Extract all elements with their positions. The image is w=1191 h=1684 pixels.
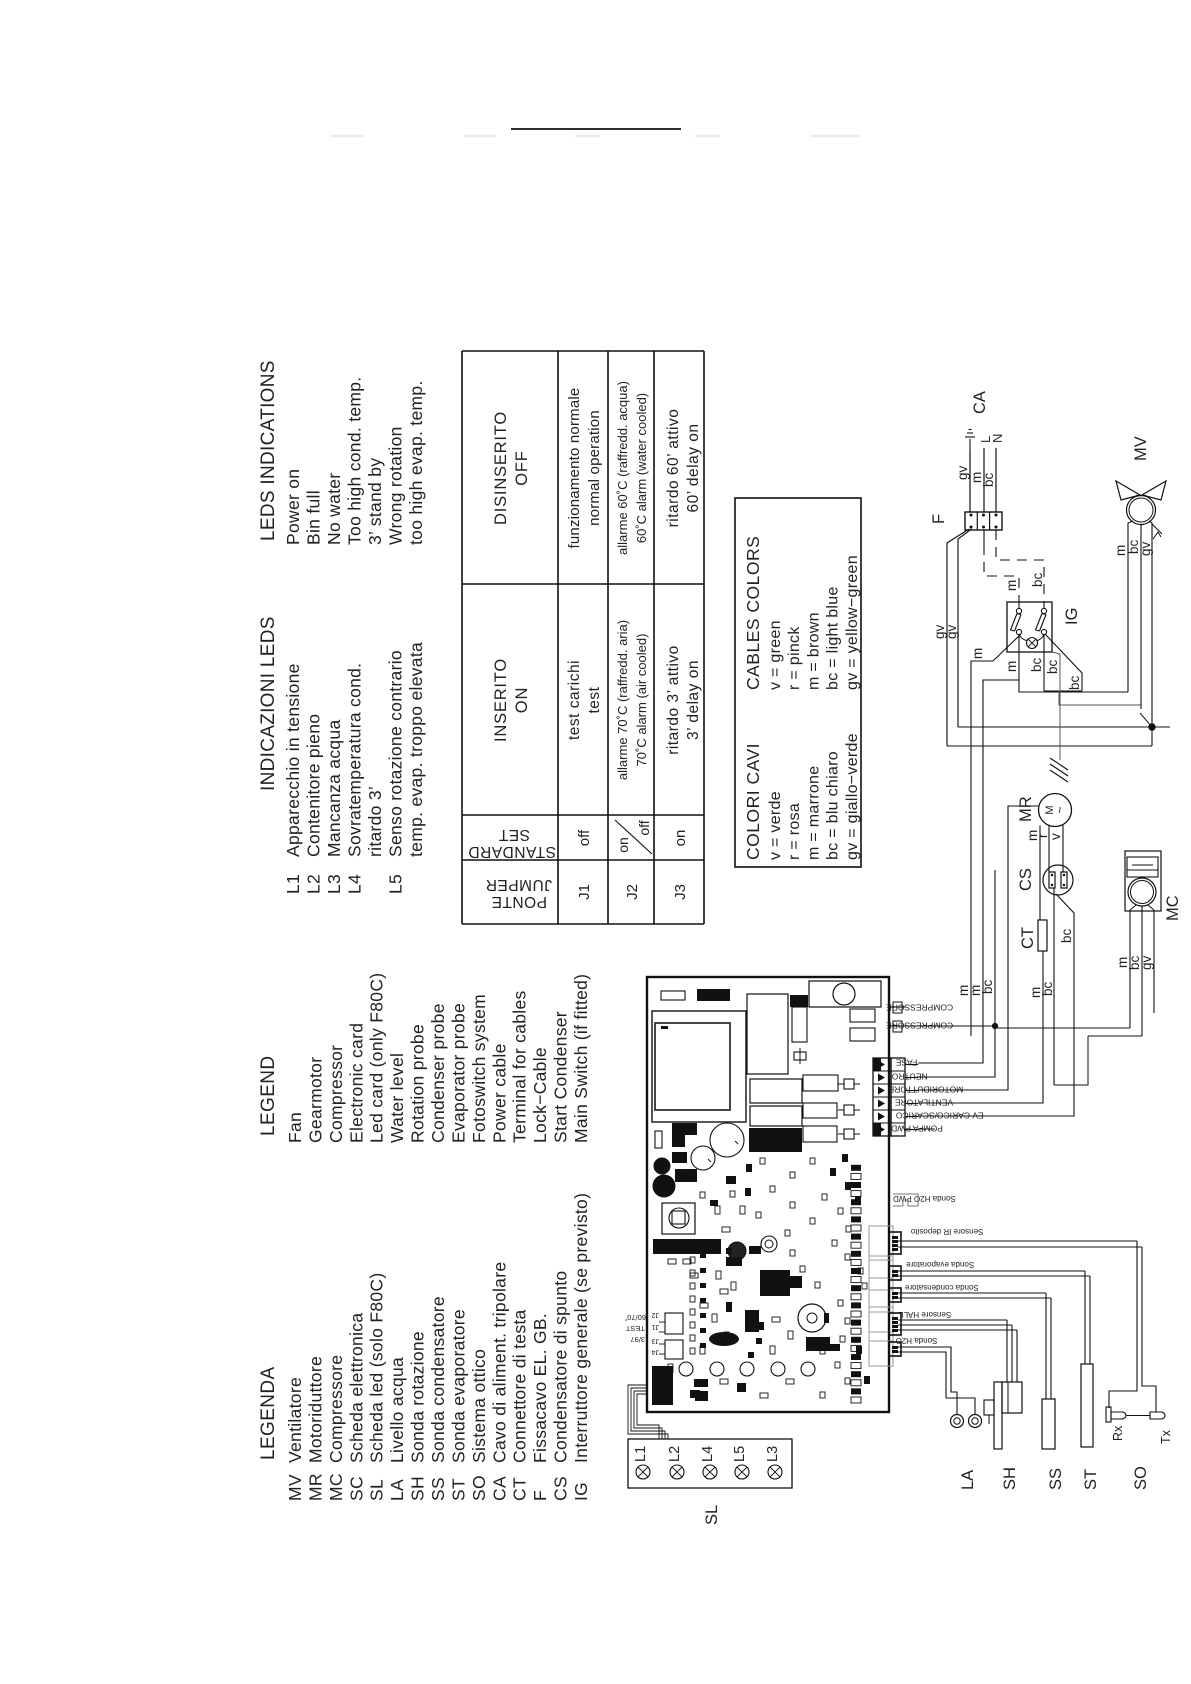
water level LA eyelets bbox=[951, 1415, 964, 1428]
junction dot compressor bc bbox=[992, 1023, 997, 1028]
PCB black square bbox=[790, 995, 808, 1007]
evaporator probe ST wire bbox=[898, 1270, 1085, 1272]
svg-text:SS: SS bbox=[428, 1477, 448, 1501]
PCB crystal oscillator black pill bbox=[709, 1332, 739, 1346]
wire gv pair from F bbox=[947, 529, 969, 746]
svg-text:Rotation probe: Rotation probe bbox=[408, 1024, 428, 1143]
svg-text:3/97: 3/97 bbox=[630, 1335, 645, 1344]
water level LA wires bbox=[898, 1347, 957, 1407]
MC wires m bc gv bbox=[1129, 910, 1131, 1028]
start capacitor CS bbox=[1043, 865, 1073, 895]
svg-text:ST: ST bbox=[1082, 1469, 1100, 1490]
svg-text:SL: SL bbox=[703, 1505, 721, 1525]
svg-text:F: F bbox=[530, 1490, 550, 1501]
svg-text:Power cable: Power cable bbox=[489, 1043, 509, 1143]
svg-text:v: v bbox=[1048, 833, 1063, 840]
svg-text:Condensatore di spunto: Condensatore di spunto bbox=[551, 1271, 571, 1463]
led lamp L1 bbox=[636, 1465, 650, 1479]
PCB jumper tick lines bbox=[659, 1331, 665, 1333]
svg-text:MV: MV bbox=[285, 1474, 305, 1501]
svg-text:Sonda condensatore: Sonda condensatore bbox=[904, 1283, 978, 1292]
svg-text:ritardo 3’ attivo: ritardo 3’ attivo bbox=[665, 645, 682, 755]
svg-text:Cavo di aliment. tripolare: Cavo di aliment. tripolare bbox=[489, 1262, 509, 1463]
svg-text:too high evap. temp.: too high evap. temp. bbox=[406, 380, 426, 545]
svg-text:MV: MV bbox=[1132, 436, 1150, 461]
svg-text:Tx: Tx bbox=[1159, 1429, 1173, 1444]
svg-text:~: ~ bbox=[1053, 806, 1067, 813]
PCB electrolytic capacitor outline big bbox=[710, 1123, 744, 1157]
svg-text:J1: J1 bbox=[576, 884, 593, 900]
svg-text:on: on bbox=[672, 830, 689, 847]
svg-text:J1: J1 bbox=[652, 1323, 660, 1330]
svg-text:Motoriduttore: Motoriduttore bbox=[305, 1356, 325, 1463]
svg-text:Gearmotor: Gearmotor bbox=[305, 1057, 325, 1143]
svg-text:JUMPER: JUMPER bbox=[485, 876, 552, 893]
svg-text:allarme 70˚C (raffredd. aria): allarme 70˚C (raffredd. aria) bbox=[615, 620, 630, 780]
svg-text:CS: CS bbox=[1017, 868, 1035, 891]
svg-text:normal operation: normal operation bbox=[586, 410, 603, 526]
svg-text:bc = blu chiaro: bc = blu chiaro bbox=[825, 751, 842, 860]
PCB rect right of relay 2 bbox=[803, 1103, 837, 1118]
wire bc branch to MV bbox=[1059, 691, 1141, 705]
svg-text:Fissacavo EL. GB.: Fissacavo EL. GB. bbox=[530, 1313, 550, 1463]
connector block mains (FASE..POMPA PWD) bbox=[873, 1058, 918, 1136]
wire m from CA bbox=[983, 448, 985, 512]
svg-text:allarme 60˚C (raffredd. acqua): allarme 60˚C (raffredd. acqua) bbox=[615, 381, 630, 555]
svg-text:L2: L2 bbox=[667, 1446, 683, 1462]
svg-text:Led card (only F80C): Led card (only F80C) bbox=[367, 973, 387, 1143]
sensor connectors black bbox=[889, 1232, 901, 1356]
svg-text:m = marrone: m = marrone bbox=[805, 766, 822, 860]
PCB relay black block bbox=[749, 1128, 802, 1152]
svg-text:60/70˚: 60/70˚ bbox=[625, 1313, 646, 1322]
jumper table grid bbox=[462, 351, 704, 924]
svg-text:L5: L5 bbox=[732, 1446, 748, 1462]
PCB black rect corner bbox=[652, 1366, 673, 1405]
wire bc from CA bbox=[995, 448, 997, 512]
svg-text:gv = giallo−verde: gv = giallo−verde bbox=[844, 733, 861, 860]
svg-text:3’ delay on: 3’ delay on bbox=[685, 660, 702, 740]
svg-text:OFF: OFF bbox=[513, 450, 531, 485]
svg-text:CA: CA bbox=[971, 391, 989, 414]
svg-text:Mancanza acqua: Mancanza acqua bbox=[324, 720, 344, 857]
svg-text:v = green: v = green bbox=[767, 620, 784, 690]
led lamp L2 bbox=[670, 1465, 684, 1479]
compressor MC box bbox=[1125, 851, 1161, 911]
svg-text:Sonda H2O: Sonda H2O bbox=[896, 1336, 938, 1345]
svg-text:LEDS INDICATIONS: LEDS INDICATIONS bbox=[258, 360, 279, 541]
evaporator probe ST body bbox=[1081, 1364, 1093, 1447]
svg-text:TEST: TEST bbox=[625, 1324, 645, 1333]
PCB toroid ring bbox=[761, 1236, 777, 1252]
wire compressor 2 drop bbox=[905, 1025, 995, 1027]
svg-text:Interruttore generale (se prev: Interruttore generale (se previsto) bbox=[571, 1193, 591, 1463]
optical system SO wires bbox=[898, 1240, 1137, 1242]
svg-text:FASE: FASE bbox=[895, 1058, 917, 1068]
svg-text:LA: LA bbox=[387, 1479, 407, 1501]
svg-text:J4: J4 bbox=[652, 1348, 660, 1355]
svg-text:test: test bbox=[586, 686, 603, 713]
PCB black ic extra 2 bbox=[726, 1257, 742, 1266]
svg-text:J3: J3 bbox=[652, 1337, 660, 1344]
svg-text:gv: gv bbox=[944, 624, 959, 639]
terminal block F bbox=[965, 512, 1002, 530]
wire compressor stub 2 bbox=[889, 1025, 905, 1027]
condenser probe SS body bbox=[1042, 1399, 1055, 1449]
svg-text:Contenitore pieno: Contenitore pieno bbox=[304, 714, 324, 857]
PCB transformer bbox=[652, 1011, 746, 1122]
fan MV motor circle bbox=[1127, 496, 1156, 525]
svg-text:Rx: Rx bbox=[1111, 1425, 1125, 1441]
wire bundle card to SL bbox=[637, 1394, 659, 1439]
faint ghost text marks bbox=[330, 135, 365, 138]
svg-text:Main Switch (if fitted): Main Switch (if fitted) bbox=[571, 974, 591, 1143]
svg-text:Compressore: Compressore bbox=[326, 1355, 346, 1463]
svg-text:CT: CT bbox=[510, 1477, 530, 1501]
wire bc line from CS diag bbox=[918, 894, 1074, 1116]
svg-text:L3: L3 bbox=[765, 1446, 781, 1462]
PCB white rect small bbox=[792, 1007, 807, 1042]
svg-text:Condenser probe: Condenser probe bbox=[428, 1003, 448, 1143]
svg-text:LEGEND: LEGEND bbox=[258, 1055, 279, 1136]
svg-text:Compressor: Compressor bbox=[326, 1045, 346, 1143]
svg-text:Sistema ottico: Sistema ottico bbox=[469, 1349, 489, 1463]
IG pole 1 bbox=[1016, 608, 1021, 613]
wire MC m up to NEUTRO trunk bbox=[995, 1027, 1130, 1029]
svg-text:off: off bbox=[576, 829, 593, 846]
PCB ic black middle bbox=[760, 1270, 790, 1296]
svg-text:off: off bbox=[636, 820, 652, 835]
svg-text:Sovratemperatura cond.: Sovratemperatura cond. bbox=[345, 663, 365, 857]
svg-text:v = verde: v = verde bbox=[767, 791, 784, 860]
svg-text:60˚C alarm (water cooled): 60˚C alarm (water cooled) bbox=[634, 393, 649, 543]
PCB electrolytic capacitor outline small bbox=[691, 1146, 715, 1170]
svg-text:Sensore HALL: Sensore HALL bbox=[899, 1310, 952, 1319]
condenser probe SS wire bbox=[898, 1292, 1046, 1294]
svg-text:funzionamento normale: funzionamento normale bbox=[566, 388, 583, 549]
svg-text:LEGENDA: LEGENDA bbox=[258, 1366, 279, 1460]
PCB rect under power entry bbox=[850, 1009, 875, 1022]
svg-text:ON: ON bbox=[513, 687, 531, 713]
svg-text:Ventilatore: Ventilatore bbox=[285, 1377, 305, 1463]
title underline (right edge vertical line) bbox=[511, 128, 681, 130]
svg-text:bc: bc bbox=[1030, 572, 1045, 587]
svg-text:SL: SL bbox=[367, 1479, 387, 1501]
PCB black L-shape component bbox=[672, 1123, 685, 1147]
svg-text:CABLES COLORS: CABLES COLORS bbox=[743, 536, 763, 690]
svg-text:m = brown: m = brown bbox=[805, 612, 822, 690]
svg-text:SET: SET bbox=[498, 826, 530, 843]
wire gv from CA bbox=[969, 450, 971, 512]
svg-text:Scheda led (solo F80C): Scheda led (solo F80C) bbox=[367, 1273, 387, 1463]
svg-text:PONTE: PONTE bbox=[491, 893, 547, 910]
svg-text:IG: IG bbox=[571, 1482, 591, 1501]
wire bc IG diagonal out bbox=[1046, 635, 1083, 692]
PCB black bar component bbox=[697, 989, 730, 1001]
svg-text:Sonda evaporatore: Sonda evaporatore bbox=[448, 1309, 468, 1463]
wire compressor stub 1 bbox=[889, 1006, 905, 1008]
svg-text:Sonda rotazione: Sonda rotazione bbox=[408, 1331, 428, 1463]
PCB relay rect bbox=[747, 994, 788, 1074]
wire bc trunk NEUTRO bbox=[918, 870, 995, 1077]
svg-text:Too high cond. temp.: Too high cond. temp. bbox=[345, 377, 365, 545]
svg-text:m: m bbox=[1004, 661, 1019, 672]
PCB black smd scatter bbox=[690, 1154, 870, 1398]
svg-text:J2: J2 bbox=[624, 884, 641, 900]
SO transmitter Tx bbox=[1150, 1412, 1165, 1419]
svg-text:L5: L5 bbox=[386, 874, 406, 894]
PCB ic black 2 bbox=[745, 1310, 759, 1332]
svg-text:L1: L1 bbox=[283, 874, 303, 894]
svg-text:INDICAZIONI LEDS: INDICAZIONI LEDS bbox=[258, 616, 279, 791]
main switch IG box bbox=[1007, 602, 1052, 652]
svg-text:Terminal for cables: Terminal for cables bbox=[510, 990, 530, 1143]
PCB jumper header J3 bbox=[665, 1340, 683, 1359]
svg-text:test carichi: test carichi bbox=[566, 660, 583, 740]
svg-text:bc: bc bbox=[1040, 981, 1055, 996]
svg-text:IG: IG bbox=[1063, 608, 1081, 625]
svg-text:temp. evap. troppo elevata: temp. evap. troppo elevata bbox=[406, 642, 426, 857]
svg-text:bc: bc bbox=[980, 979, 995, 994]
svg-text:bc: bc bbox=[981, 472, 996, 487]
led lamp L4 bbox=[703, 1465, 717, 1479]
svg-text:COLORI CAVI: COLORI CAVI bbox=[743, 743, 763, 860]
svg-text:Livello acqua: Livello acqua bbox=[387, 1357, 407, 1463]
svg-text:L4: L4 bbox=[700, 1446, 716, 1462]
wire bc dashed F to IG bbox=[996, 530, 1044, 602]
PCB bottom pin header strip bbox=[851, 1165, 861, 1403]
svg-text:No water: No water bbox=[324, 473, 344, 545]
svg-text:F: F bbox=[930, 514, 948, 524]
svg-text:gv: gv bbox=[1138, 541, 1153, 556]
svg-text:gv: gv bbox=[1139, 955, 1154, 970]
svg-text:STANDARD: STANDARD bbox=[468, 843, 556, 860]
PCB black ic extra 1 bbox=[806, 1337, 830, 1351]
svg-text:L1: L1 bbox=[633, 1446, 649, 1462]
SO receiver Rx bbox=[1106, 1407, 1111, 1422]
svg-text:Senso rotazione contrario: Senso rotazione contrario bbox=[386, 650, 406, 857]
fan MV propeller bbox=[1116, 481, 1140, 500]
svg-text:ritardo 60’ attivo: ritardo 60’ attivo bbox=[665, 409, 682, 528]
wire Rx to Tx bbox=[1126, 1415, 1150, 1417]
svg-text:J3: J3 bbox=[672, 884, 689, 900]
svg-text:3’ stand by: 3’ stand by bbox=[365, 458, 385, 545]
svg-text:MR: MR bbox=[1017, 796, 1035, 822]
junction dot gv bbox=[1149, 724, 1155, 730]
svg-text:INSERITO: INSERITO bbox=[492, 658, 510, 742]
rotation probe SH wires bbox=[898, 1319, 1007, 1321]
cable colors box bbox=[735, 498, 861, 867]
svg-text:SO: SO bbox=[1132, 1466, 1150, 1490]
led panel SL box bbox=[628, 1439, 792, 1488]
svg-text:Fotoswitch system: Fotoswitch system bbox=[469, 994, 489, 1143]
led lamp L3 bbox=[768, 1465, 782, 1479]
svg-text:Evaporator probe: Evaporator probe bbox=[448, 1003, 468, 1143]
PCB rect right of relay 1 bbox=[803, 1075, 838, 1091]
wire pompa stub bbox=[918, 1128, 935, 1130]
PCB crystal symbols bbox=[844, 1079, 854, 1089]
PCB black electrolytic caps bbox=[654, 1158, 670, 1174]
svg-text:Connettore di testa: Connettore di testa bbox=[510, 1309, 530, 1463]
svg-text:Scheda elettronica: Scheda elettronica bbox=[346, 1313, 366, 1463]
svg-text:Sonda condensatore: Sonda condensatore bbox=[428, 1296, 448, 1463]
IG pole 2 bbox=[1041, 608, 1046, 613]
svg-text:CT: CT bbox=[1019, 927, 1037, 949]
svg-text:Start Condenser: Start Condenser bbox=[551, 1011, 571, 1143]
terminal block F dots bbox=[970, 526, 972, 528]
PCB varistor bbox=[728, 1242, 746, 1260]
led lamp L5 bbox=[735, 1465, 749, 1479]
MV wires m bc gv bbox=[1128, 521, 1133, 692]
svg-text:bc: bc bbox=[1067, 675, 1082, 690]
wire m IG out down to MV bbox=[1019, 635, 1128, 693]
wire gv drop to junction bbox=[958, 726, 1170, 728]
PCB small smd pads scatter bbox=[668, 1158, 867, 1398]
svg-text:Power on: Power on bbox=[283, 469, 303, 545]
svg-text:m: m bbox=[1004, 580, 1019, 591]
wire m dashed F to IG bbox=[983, 530, 985, 545]
wire bc IG out bbox=[1043, 635, 1045, 692]
svg-text:r = pinck: r = pinck bbox=[786, 626, 803, 690]
PCB jumper header J2 J1 bbox=[665, 1313, 683, 1334]
earth symbol bbox=[969, 439, 971, 450]
PCB resistor white bbox=[655, 1131, 662, 1148]
svg-text:N: N bbox=[990, 434, 1005, 443]
MV gv tick bbox=[1152, 524, 1162, 534]
svg-text:L2: L2 bbox=[304, 874, 324, 894]
svg-text:MC: MC bbox=[326, 1473, 346, 1501]
svg-text:Fan: Fan bbox=[285, 1112, 305, 1143]
PCB relay 2 bbox=[750, 1106, 802, 1126]
svg-text:LA: LA bbox=[959, 1470, 977, 1490]
wire gv drop left bbox=[947, 745, 1152, 747]
PCB relay box with circle bbox=[662, 1203, 695, 1234]
wire m trunk FASE bbox=[918, 680, 1019, 1063]
svg-text:Bin full: Bin full bbox=[304, 490, 324, 545]
svg-text:L4: L4 bbox=[345, 874, 365, 894]
wire m IG out to trunk bbox=[971, 635, 1021, 1037]
MC motor circle bbox=[1128, 878, 1156, 906]
PCB rect right of relay 3 bbox=[803, 1126, 837, 1142]
PCB leds column bbox=[679, 1362, 693, 1376]
svg-text:r = rosa: r = rosa bbox=[786, 803, 803, 860]
svg-text:on: on bbox=[615, 837, 631, 853]
wire v line from CS bbox=[1053, 888, 1055, 1085]
svg-text:ritardo 3’: ritardo 3’ bbox=[365, 786, 385, 857]
PCB electronic card SC outline bbox=[647, 977, 889, 1412]
svg-text:J2: J2 bbox=[652, 1311, 660, 1318]
svg-text:POMPA PWD: POMPA PWD bbox=[891, 1124, 943, 1134]
svg-text:bc: bc bbox=[1029, 657, 1044, 672]
svg-text:SH: SH bbox=[408, 1476, 428, 1501]
svg-text:bc: bc bbox=[1059, 928, 1074, 943]
svg-text:Sonda evaporatore: Sonda evaporatore bbox=[906, 1260, 975, 1269]
svg-text:bc: bc bbox=[1045, 659, 1060, 674]
svg-text:Wrong rotation: Wrong rotation bbox=[386, 426, 406, 545]
wire MC bc up to EV line bbox=[1088, 1035, 1142, 1037]
gearmotor MR circle bbox=[1039, 794, 1072, 827]
PCB trimmer bbox=[798, 1304, 826, 1332]
svg-text:60’ delay on: 60’ delay on bbox=[685, 423, 702, 512]
PCB small cap symbol bbox=[794, 1052, 806, 1060]
svg-text:Apparecchio in tensione: Apparecchio in tensione bbox=[283, 663, 303, 857]
svg-text:Sensore IR deposito: Sensore IR deposito bbox=[910, 1227, 983, 1236]
svg-text:SS: SS bbox=[1047, 1468, 1065, 1490]
svg-text:Lock−Cable: Lock−Cable bbox=[530, 1047, 550, 1143]
svg-text:CA: CA bbox=[489, 1476, 509, 1501]
MR wires m r v bbox=[1039, 826, 1041, 921]
svg-text:gv: gv bbox=[955, 465, 970, 480]
svg-text:ST: ST bbox=[448, 1478, 468, 1501]
PCB black pads bbox=[672, 1152, 687, 1163]
svg-text:gv = yellow−green: gv = yellow−green bbox=[844, 555, 861, 690]
MC start relay bbox=[1127, 857, 1158, 877]
gray wire IG to motor ground bbox=[1052, 652, 1060, 760]
svg-text:L3: L3 bbox=[324, 874, 344, 894]
ground hatch MR bbox=[1050, 770, 1068, 782]
svg-text:Water level: Water level bbox=[387, 1053, 407, 1143]
svg-text:CS: CS bbox=[551, 1476, 571, 1501]
svg-text:bc = light blue: bc = light blue bbox=[825, 586, 842, 690]
svg-text:m: m bbox=[970, 648, 985, 659]
svg-text:MC: MC bbox=[1164, 895, 1182, 921]
PCB white rect component bbox=[661, 991, 685, 1000]
PCB black pads near leds bbox=[694, 1379, 708, 1387]
rotation probe SH body bbox=[994, 1382, 1002, 1449]
svg-text:70˚C alarm (air cooled): 70˚C alarm (air cooled) bbox=[634, 634, 649, 767]
PCB relay 1 bbox=[750, 1079, 802, 1103]
wire MOTORIDUTTORE to MR bbox=[918, 806, 1039, 1090]
svg-text:Electronic card: Electronic card bbox=[346, 1023, 366, 1143]
PCB pad chain near jumpers bbox=[690, 1244, 706, 1354]
svg-text:DISINSERITO: DISINSERITO bbox=[492, 411, 510, 525]
svg-text:SC: SC bbox=[346, 1476, 366, 1501]
svg-text:SO: SO bbox=[469, 1475, 489, 1501]
PCB power entry module bbox=[809, 981, 881, 1007]
IG lamp bbox=[1027, 638, 1038, 649]
wire CT line to VENTILATORE bbox=[918, 951, 1043, 1103]
svg-text:MR: MR bbox=[305, 1473, 325, 1501]
svg-text:SH: SH bbox=[1001, 1467, 1019, 1490]
PCB black bar long bbox=[653, 1239, 721, 1254]
svg-text:Sonda H2O PWD: Sonda H2O PWD bbox=[893, 1194, 956, 1203]
sensor connector housings on card edge bbox=[869, 1194, 918, 1366]
head connector CT bbox=[1038, 920, 1047, 951]
